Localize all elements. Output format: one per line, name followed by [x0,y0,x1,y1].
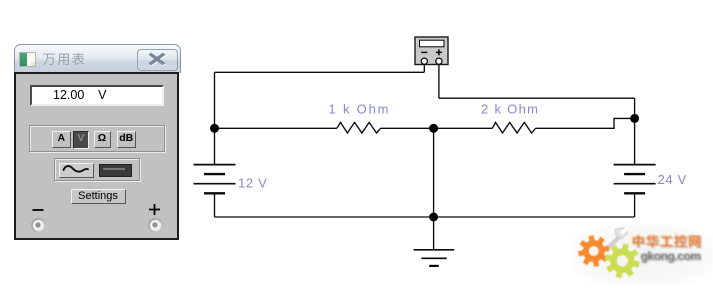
multimeter panel window [13,44,181,239]
waveform group box [54,158,140,181]
window icon [19,52,36,67]
button Ohm [94,131,111,148]
junction node C [630,114,639,123]
minus terminal label [31,206,45,214]
svg-text:2 k Ohm: 2 k Ohm [481,101,539,116]
button dB [117,131,137,148]
wire: node A down to battery V1 [214,128,216,164]
wire: multimeter plus terminal down [438,65,440,99]
svg-text:24 V: 24 V [658,172,688,187]
multimeter minus terminal [421,58,427,64]
close button X glyph [142,51,172,67]
resistor R1 zigzag [337,122,381,133]
value label 1 k Ohm [329,101,391,116]
watermark wrench [604,227,629,253]
button V (volt, selected) [73,131,89,149]
voltage display 12.00 V [30,85,165,106]
multimeter plus pin label [436,49,442,55]
wire: bottom rail [215,216,635,218]
button A (ampere) [52,131,71,148]
wire: resistor R1 to node B [381,127,434,129]
wire: right rail down to node C [634,98,636,118]
settings button [71,189,126,204]
battery V2 24 V plates [614,165,656,194]
watermark text gkong.com [641,249,702,264]
value label 2 k Ohm [481,101,539,116]
svg-text:gkong.com: gkong.com [641,249,701,263]
window close button [137,49,178,71]
window title bar [14,44,181,73]
value label 24 V [658,172,688,187]
ground symbol [414,250,455,266]
wire: battery V1 to bottom rail [214,194,216,218]
button DC (selected) [99,164,132,177]
window body [14,72,180,240]
junction node D on bottom rail [429,213,438,222]
wire: ground stem [433,217,435,250]
multimeter plus terminal [436,58,442,64]
minus terminal socket [30,217,46,233]
wire: top-left horizontal rail [215,71,425,73]
junction node A [210,124,219,133]
plus terminal socket [147,217,163,233]
watermark green gear [605,243,640,278]
watermark orange gear [578,235,610,267]
wire: node B down to bottom rail [433,128,435,217]
wire: top-right horizontal rail [439,97,635,99]
battery V1 12 V plates [194,165,236,194]
wire: node B to resistor R2 [434,127,493,129]
svg-text:1 k Ohm: 1 k Ohm [329,101,391,116]
plus terminal label [148,203,161,216]
multimeter instrument XMM1 body [415,37,448,65]
svg-text:12 V: 12 V [238,176,268,191]
button AC (sine) [59,163,94,178]
wire: node C down to battery V2 [634,118,636,164]
wire: battery V2 to bottom rail [634,194,636,218]
wire: node A to resistor R1 [215,127,337,129]
window title text 万用表 [13,44,179,72]
junction node B [429,124,438,133]
wire: multimeter minus terminal down to top-left rail [423,65,425,73]
mode group box [29,125,165,152]
watermark text 中华工控网 [633,235,702,249]
wire: resistor R2 to node C with step [536,118,635,128]
wire: left rail down to node A [214,72,216,128]
gkong watermark logo [570,222,713,288]
resistor R2 zigzag [492,122,535,133]
multimeter minus pin label [421,51,427,53]
watermark halo background [572,224,713,286]
value label 12 V [238,176,268,191]
